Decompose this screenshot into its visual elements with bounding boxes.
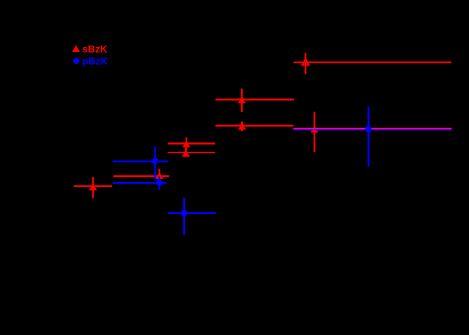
B3 vertical error bar bbox=[183, 198, 185, 235]
B1 vertical error bar bbox=[154, 146, 156, 179]
R6 horizontal error bar bbox=[113, 175, 169, 177]
R2 horizontal error bar bbox=[215, 99, 294, 101]
R2 vertical error bar bbox=[241, 89, 243, 112]
R7 vertical error bar bbox=[92, 177, 94, 198]
legend pBzK marker (blue circle) bbox=[73, 58, 79, 64]
legend sBzK marker (red triangle) bbox=[72, 45, 80, 52]
B3 marker (filled circle) bbox=[181, 210, 187, 216]
R6 vertical error bar bbox=[158, 169, 160, 182]
R3 horizontal error bar bbox=[215, 125, 293, 127]
B4 marker (filled circle) bbox=[365, 126, 372, 133]
B1 marker (open circle) bbox=[152, 158, 158, 164]
R1 marker (open triangle) bbox=[302, 58, 310, 65]
R5 vertical error bar bbox=[185, 148, 187, 157]
B4 vertical error bar bbox=[368, 107, 370, 167]
svg-text:sBzK: sBzK bbox=[82, 45, 108, 56]
R8 marker (filled triangle) bbox=[310, 126, 318, 133]
R7 horizontal error bar bbox=[74, 185, 112, 187]
R4 vertical error bar bbox=[185, 138, 187, 150]
B2 horizontal error bar bbox=[113, 182, 167, 184]
B4 horizontal error bar bbox=[293, 128, 451, 130]
R1 vertical error bar bbox=[305, 53, 307, 74]
R6 marker (filled triangle) bbox=[155, 172, 163, 179]
R1 horizontal error bar bbox=[293, 61, 451, 63]
B3 horizontal error bar bbox=[168, 212, 216, 214]
R8 horizontal error bar bbox=[293, 128, 451, 130]
R2 marker (filled triangle) bbox=[238, 96, 246, 103]
R4 horizontal error bar bbox=[168, 143, 215, 145]
R3 marker (filled triangle) bbox=[238, 123, 246, 130]
R5 marker (filled triangle) bbox=[182, 150, 190, 157]
B2 marker (filled circle) bbox=[156, 180, 162, 186]
legend pBzK label bbox=[82, 57, 108, 68]
B4 horizontal error bar segment over R8 marker bbox=[310, 129, 320, 131]
legend sBzK label bbox=[82, 45, 108, 56]
B2 vertical error bar bbox=[158, 177, 160, 191]
R7 marker (filled triangle) bbox=[89, 183, 97, 190]
R5 horizontal error bar bbox=[168, 152, 216, 154]
R8 vertical error bar bbox=[313, 112, 315, 153]
R3 vertical error bar bbox=[241, 122, 243, 132]
B1 horizontal error bar bbox=[113, 160, 168, 162]
R4 marker (filled triangle) bbox=[182, 140, 190, 147]
svg-text:pBzK: pBzK bbox=[82, 57, 108, 68]
